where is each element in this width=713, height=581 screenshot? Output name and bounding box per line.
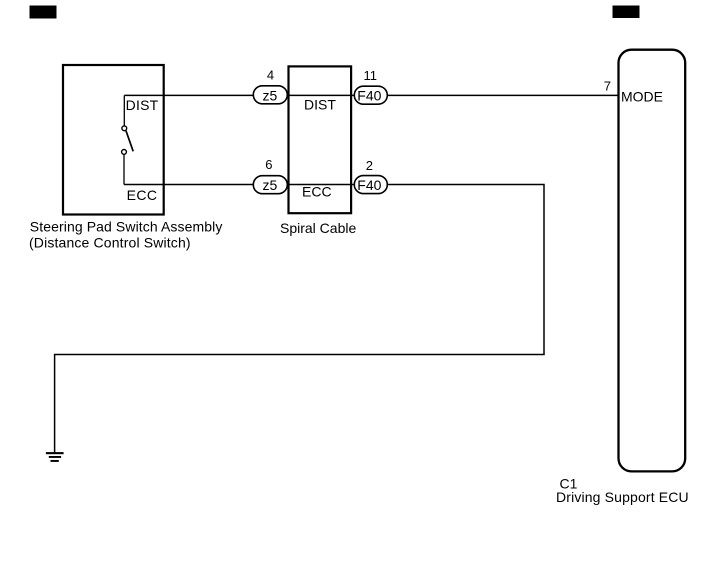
caption C1 Driving Support ECU bbox=[556, 475, 689, 505]
svg-text:F40: F40 bbox=[357, 177, 381, 193]
svg-text:Spiral Cable: Spiral Cable bbox=[280, 220, 356, 236]
svg-text:11: 11 bbox=[364, 68, 378, 83]
svg-text:7: 7 bbox=[604, 78, 611, 93]
svg-text:F40: F40 bbox=[357, 87, 381, 103]
connector oval z5 pin 6 bbox=[253, 176, 287, 194]
svg-text:2: 2 bbox=[366, 158, 373, 173]
ground symbol bbox=[46, 452, 64, 462]
redaction mark top-right bbox=[613, 6, 640, 19]
svg-text:DIST: DIST bbox=[126, 97, 159, 113]
wire DIST (switch to ECU) bbox=[124, 94, 618, 96]
wire ECC (switch to corner, down, across, down to ground) bbox=[55, 185, 544, 453]
switch box: Steering Pad Switch Assembly bbox=[63, 65, 164, 215]
svg-text:Driving Support ECU: Driving Support ECU bbox=[556, 489, 689, 505]
connector oval F40 pin 11 bbox=[354, 86, 387, 104]
svg-text:Steering Pad Switch Assembly: Steering Pad Switch Assembly bbox=[30, 218, 223, 234]
caption Steering Pad Switch Assembly (Distance Control Switch) bbox=[29, 218, 222, 250]
spiral cable box bbox=[289, 66, 352, 213]
svg-text:4: 4 bbox=[267, 68, 274, 83]
connector oval F40 pin 2 bbox=[354, 176, 387, 194]
connector oval z5 pin 4 bbox=[253, 86, 287, 104]
svg-text:z5: z5 bbox=[263, 87, 278, 103]
svg-text:(Distance Control Switch): (Distance Control Switch) bbox=[29, 235, 191, 251]
switch S contacts bbox=[122, 95, 134, 184]
svg-text:ECC: ECC bbox=[302, 184, 332, 200]
ECU box U1 (Driving Support ECU) bbox=[619, 50, 686, 472]
svg-text:z5: z5 bbox=[263, 177, 278, 193]
svg-text:6: 6 bbox=[265, 157, 272, 172]
svg-text:ECC: ECC bbox=[127, 187, 158, 203]
svg-text:DIST: DIST bbox=[304, 96, 336, 112]
svg-text:MODE: MODE bbox=[621, 89, 663, 105]
redaction mark top-left bbox=[30, 6, 57, 19]
